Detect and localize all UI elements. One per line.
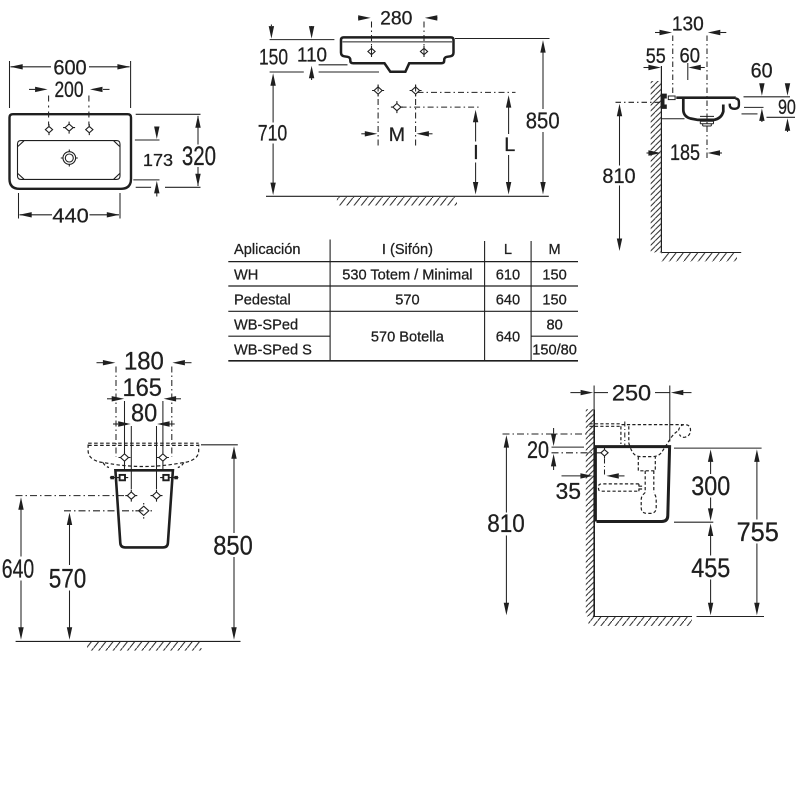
- svg-text:L: L: [504, 242, 512, 258]
- svg-text:455: 455: [691, 552, 730, 583]
- svg-text:35: 35: [556, 478, 582, 504]
- table bottom line: [228, 360, 578, 362]
- dim 180: [97, 362, 192, 364]
- dim 850 (bottom-left): [201, 444, 238, 446]
- svg-text:810: 810: [602, 164, 635, 188]
- svg-text:250: 250: [612, 381, 651, 406]
- basin fixation diamonds: [119, 452, 131, 464]
- ground line: [266, 195, 549, 197]
- table column line 3: [530, 241, 532, 361]
- siphon center diamond: [135, 503, 152, 519]
- dim 185: [647, 152, 723, 154]
- dashed front lip: [679, 425, 691, 438]
- reference line 640: [16, 495, 132, 497]
- tap hole centerlines: [372, 22, 425, 58]
- svg-text:850: 850: [526, 108, 560, 134]
- svg-text:M: M: [549, 242, 561, 258]
- svg-text:600: 600: [53, 54, 86, 79]
- table column line 1: [329, 240, 331, 361]
- dim 810 (top-right): [619, 114, 621, 240]
- dim 300: [674, 448, 762, 522]
- dimension base line right: [697, 616, 765, 618]
- basin inner bowl rect: [18, 141, 121, 180]
- svg-text:570: 570: [395, 293, 419, 309]
- svg-text:320: 320: [182, 140, 216, 171]
- svg-text:570 Botella: 570 Botella: [371, 330, 445, 346]
- hole centerlines outer pair (180): [116, 367, 172, 458]
- svg-text:80: 80: [131, 399, 157, 427]
- hole centerline (55/130 left): [673, 36, 707, 161]
- ground hatching (bottom-left): [87, 642, 201, 651]
- drain symbol: [61, 150, 78, 167]
- ground hatching: [589, 617, 693, 626]
- wall hatching: [651, 81, 662, 253]
- fixing hole: [668, 96, 675, 100]
- table row line 4 (partial): [228, 335, 330, 337]
- hole centerlines mid pair (165): [125, 401, 163, 470]
- dim 165: [107, 398, 181, 400]
- fixation hole diamonds: [372, 85, 384, 97]
- dashed basin deck: [590, 424, 691, 514]
- svg-text:180: 180: [124, 348, 164, 376]
- tap hole diamonds: [368, 46, 375, 57]
- dim L: [508, 105, 510, 184]
- dashed siphon u-bend: [641, 493, 656, 514]
- dim 640: [20, 508, 22, 630]
- dashed siphon top cup: [638, 457, 655, 471]
- svg-text:640: 640: [496, 293, 520, 309]
- svg-text:130: 130: [672, 14, 704, 36]
- pedestal fixing diamond: [601, 447, 608, 458]
- dim 60 (right) reference lines: [742, 84, 796, 132]
- bowl section: [662, 98, 739, 126]
- svg-text:20: 20: [527, 438, 549, 464]
- svg-text:I (Sifón): I (Sifón): [382, 242, 433, 258]
- svg-text:440: 440: [52, 206, 88, 228]
- svg-text:WB-SPed: WB-SPed: [234, 317, 298, 333]
- svg-text:M: M: [389, 124, 405, 146]
- dim 20: [552, 428, 585, 470]
- ground line (bottom-left): [16, 640, 241, 642]
- svg-text:850: 850: [213, 529, 253, 560]
- dashed siphon pipe: [645, 471, 654, 493]
- svg-text:60: 60: [679, 45, 700, 68]
- svg-text:640: 640: [496, 330, 520, 346]
- drain flange: [700, 116, 714, 126]
- fixing centerline vertical: [604, 459, 606, 477]
- svg-text:530 Totem / Minimal: 530 Totem / Minimal: [342, 268, 472, 284]
- svg-text:90: 90: [778, 96, 796, 119]
- basin underside line: [662, 118, 685, 120]
- dashed tap boss: [621, 426, 629, 444]
- fixation hole centerlines: [378, 86, 515, 147]
- pedestal hole diamonds: [125, 490, 137, 502]
- table row line 1: [228, 261, 578, 263]
- svg-text:810: 810: [487, 511, 525, 538]
- svg-text:Aplicación: Aplicación: [234, 242, 301, 258]
- svg-text:200: 200: [55, 77, 84, 102]
- svg-text:L: L: [504, 134, 515, 156]
- basin hole height centerline: [503, 433, 595, 435]
- table text: [234, 242, 577, 359]
- svg-text:80: 80: [546, 317, 562, 333]
- dim 200: [29, 89, 110, 125]
- dim M: [361, 133, 432, 135]
- dim 755: [756, 460, 758, 605]
- ground line: [661, 252, 741, 254]
- dashed basin outline: [88, 443, 199, 445]
- dim 130: [655, 32, 726, 34]
- svg-text:55: 55: [646, 45, 666, 68]
- dim 280: [358, 17, 438, 19]
- height reference centerline: [616, 101, 661, 103]
- ground hatching: [662, 253, 738, 261]
- svg-text:150: 150: [542, 293, 566, 309]
- basin front profile: [341, 37, 454, 71]
- svg-text:640: 640: [2, 554, 34, 584]
- dim 440: [19, 193, 121, 219]
- wall surface line: [660, 66, 662, 253]
- dim 455: [710, 534, 712, 605]
- basin outer outline: [10, 114, 132, 189]
- dim 150 extension lines: [270, 25, 379, 81]
- svg-text:150: 150: [542, 268, 566, 284]
- basin rim inner line: [343, 41, 453, 43]
- dim I: [475, 120, 477, 184]
- dim 250: [570, 386, 691, 442]
- tap hole diamonds: [45, 124, 52, 135]
- svg-text:WH: WH: [234, 268, 258, 284]
- dim 570: [69, 523, 71, 630]
- wall hatching: [586, 409, 595, 616]
- svg-text:710: 710: [258, 120, 288, 145]
- svg-text:165: 165: [123, 374, 162, 402]
- ground hatching: [337, 197, 457, 206]
- dim 810 (bottom-right): [505, 445, 507, 605]
- dim 55: [644, 67, 650, 69]
- svg-text:755: 755: [737, 516, 779, 547]
- dim 60 (left): [700, 67, 705, 69]
- siphon diamond: [391, 101, 403, 113]
- svg-text:I: I: [473, 142, 479, 164]
- basin mounting bracket: [661, 94, 667, 109]
- dim 850 (middle): [455, 39, 550, 184]
- svg-text:110: 110: [297, 44, 327, 66]
- dim 35: [562, 475, 625, 477]
- right fixation clip: [160, 475, 178, 480]
- svg-text:WB-SPed S: WB-SPed S: [234, 343, 312, 359]
- ground line: [593, 616, 692, 618]
- table row line 2: [228, 285, 578, 287]
- dashed outlet pipe to wall: [599, 484, 644, 491]
- svg-text:185: 185: [670, 140, 700, 165]
- svg-text:60: 60: [751, 59, 773, 82]
- svg-text:610: 610: [496, 268, 520, 284]
- pedestal back edge on wall: [594, 447, 597, 522]
- svg-text:300: 300: [691, 470, 730, 501]
- svg-text:150: 150: [259, 45, 288, 70]
- tap centerline (dashed view): [624, 422, 626, 447]
- svg-text:173: 173: [143, 150, 173, 170]
- reference line 570: [64, 510, 144, 512]
- dim 80: [113, 423, 175, 425]
- dashed bowl: [629, 431, 679, 457]
- table row line 3: [228, 310, 578, 312]
- svg-text:280: 280: [380, 8, 412, 29]
- table column line 2: [484, 241, 486, 361]
- hole centerlines inner pair (80): [131, 426, 156, 489]
- svg-text:150/80: 150/80: [532, 343, 577, 359]
- wall line: [593, 409, 595, 616]
- svg-text:Pedestal: Pedestal: [234, 293, 291, 309]
- dim 710: [272, 85, 274, 184]
- svg-text:570: 570: [49, 563, 87, 594]
- dim 320: [136, 114, 201, 187]
- front lip: [730, 98, 739, 108]
- semi-pedestal outline: [115, 470, 172, 547]
- dim 150 arrows: [269, 26, 274, 39]
- left fixation clip: [110, 475, 128, 480]
- basin deck (top surface): [676, 96, 736, 99]
- dim 600: [10, 61, 131, 108]
- pedestal outline (side): [594, 447, 669, 522]
- dim 173: [133, 127, 159, 197]
